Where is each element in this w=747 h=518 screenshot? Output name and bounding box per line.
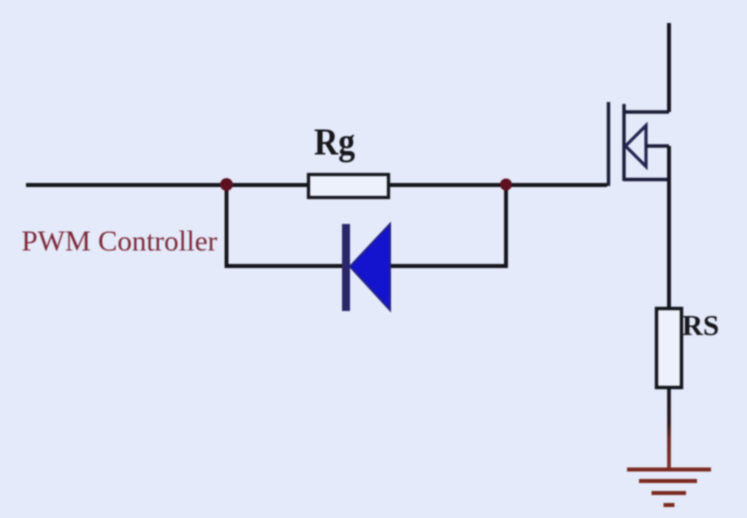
svg-text:RS: RS [682, 310, 719, 342]
svg-text:Rg: Rg [314, 122, 355, 164]
svg-text:PWM Controller: PWM Controller [22, 226, 218, 258]
